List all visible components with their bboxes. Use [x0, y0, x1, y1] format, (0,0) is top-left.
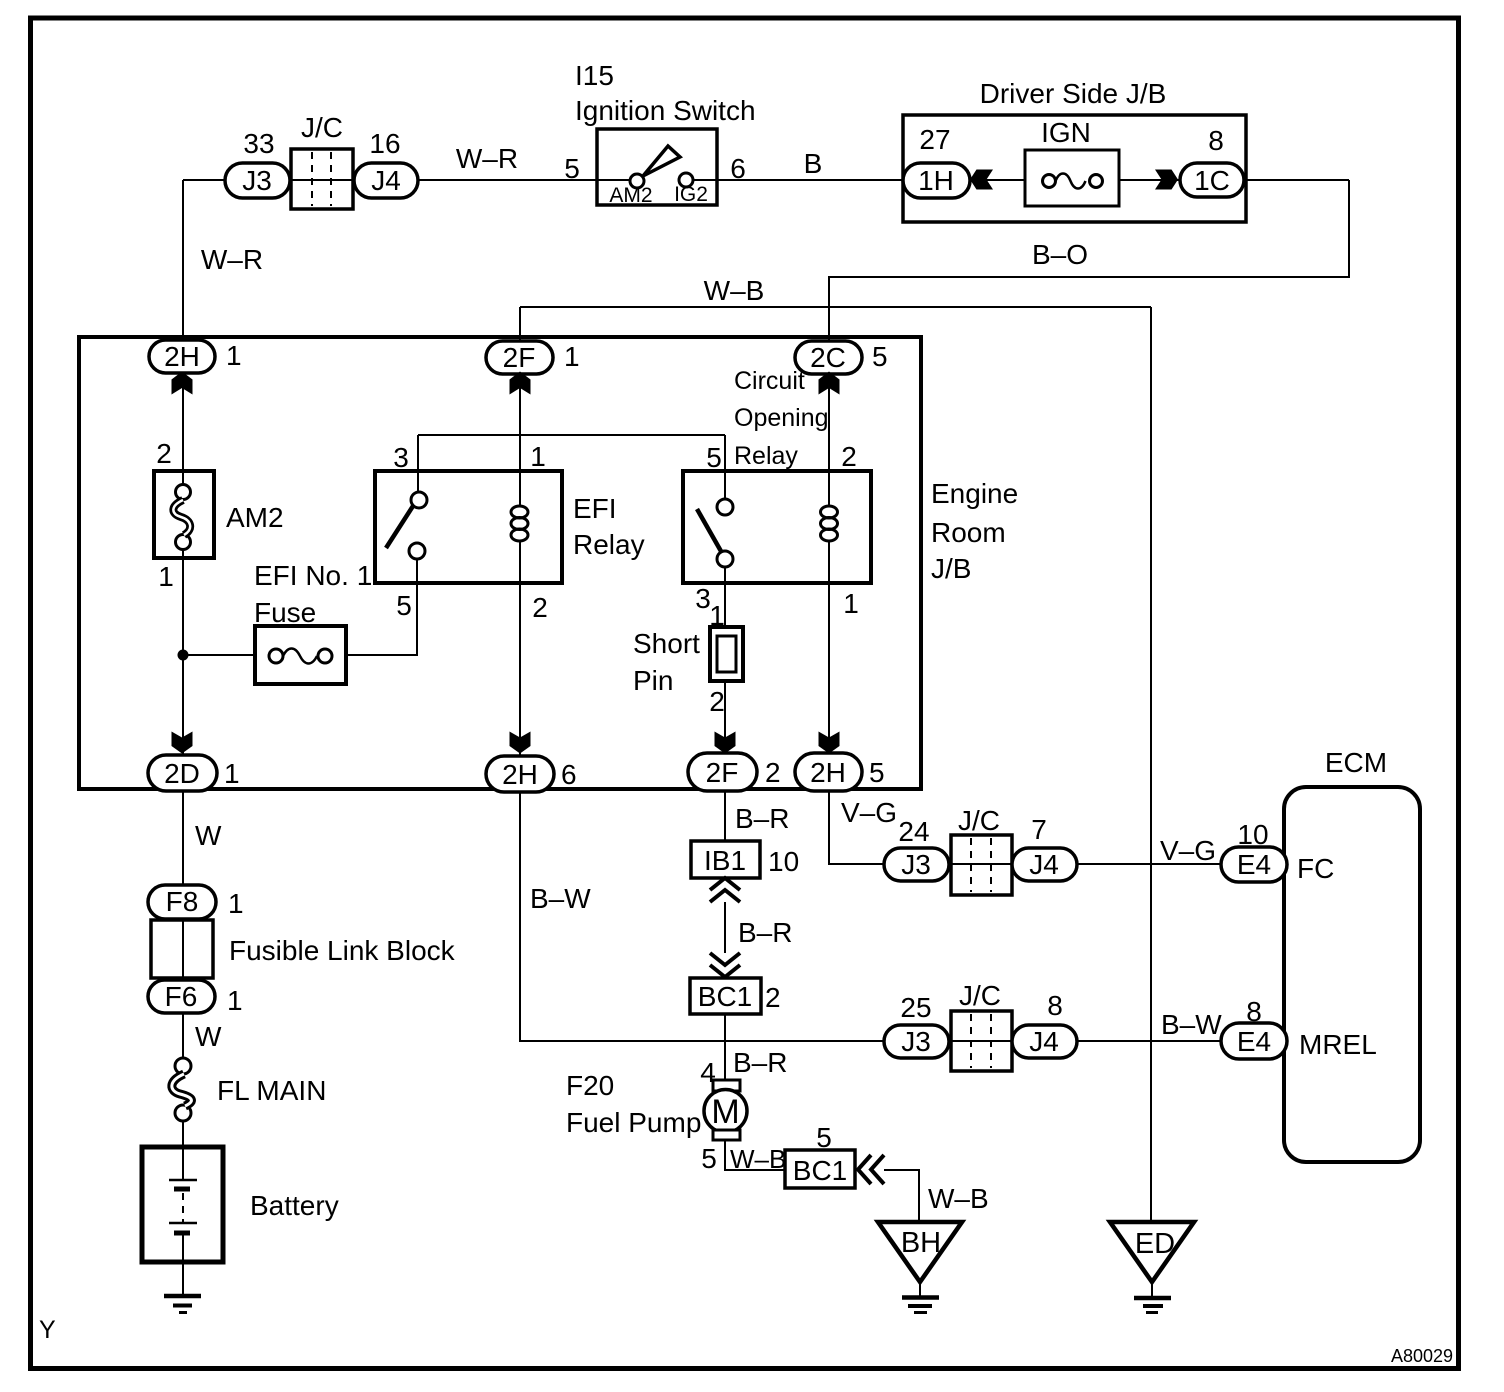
chevrons left at BC1	[858, 1155, 884, 1184]
arrow down above 2F2	[715, 732, 736, 754]
wire W-B from fuel pump pin 5 to connector BC1	[725, 1140, 785, 1170]
svg-text:8: 8	[1047, 990, 1063, 1021]
svg-text:A80029: A80029	[1391, 1346, 1453, 1366]
junction connector J/C row2	[951, 980, 1012, 1071]
svg-text:1: 1	[564, 341, 580, 372]
svg-text:M: M	[711, 1093, 739, 1131]
svg-text:Fuse: Fuse	[254, 597, 316, 628]
wire W-B from BC1 chevrons to BH ground	[884, 1170, 919, 1221]
connector E4 pin 8	[1221, 996, 1287, 1059]
ground battery	[164, 1296, 201, 1313]
wire B-O from 1C down and left to connector 2C	[829, 180, 1349, 506]
svg-text:Room: Room	[931, 517, 1006, 548]
svg-text:1: 1	[843, 588, 859, 619]
label F20 Fuel Pump	[566, 1070, 701, 1138]
Driver Side J/B box	[903, 115, 1246, 222]
svg-text:V–G: V–G	[1160, 835, 1216, 866]
wire B-R from circuit opening relay pin 3 through short pin to 2F2 and IB1	[724, 559, 726, 878]
svg-text:2: 2	[709, 686, 725, 717]
junction connector J/C top	[291, 112, 353, 209]
Engine Room J/B box	[79, 337, 1018, 789]
svg-text:MREL: MREL	[1299, 1029, 1377, 1060]
connector 2F pin 1 top	[486, 341, 580, 374]
svg-text:AM2: AM2	[609, 184, 652, 207]
svg-text:J/C: J/C	[959, 980, 1001, 1011]
connector 2D pin 1 bottom	[148, 755, 240, 791]
arrow down above 2H6	[510, 732, 531, 754]
svg-text:F20: F20	[566, 1070, 614, 1101]
ground triangle BH	[878, 1222, 962, 1282]
svg-text:J3: J3	[901, 849, 931, 880]
connector 2F pin 2 bottom	[688, 753, 781, 791]
svg-text:BC1: BC1	[793, 1155, 847, 1186]
wire circuit opening relay pin 5 drop	[724, 435, 726, 507]
svg-text:2F: 2F	[706, 757, 739, 788]
svg-text:2D: 2D	[164, 758, 200, 789]
svg-text:1H: 1H	[918, 165, 954, 196]
svg-text:Relay: Relay	[573, 529, 645, 560]
ECM box U1	[1284, 747, 1420, 1162]
svg-text:1: 1	[228, 888, 244, 919]
svg-text:FC: FC	[1297, 853, 1334, 884]
connector 2H pin 1 top	[149, 340, 242, 373]
svg-text:W: W	[195, 820, 222, 851]
connector J4 pin 8	[1012, 990, 1077, 1058]
connector BC1 pin 5 lower	[785, 1122, 855, 1188]
fusible link block	[151, 920, 456, 978]
arrow left at 1H	[970, 170, 993, 190]
svg-text:8: 8	[1246, 996, 1262, 1027]
wire stub BH triangle to ground	[919, 1284, 921, 1296]
ground triangle ED	[1110, 1222, 1194, 1282]
svg-text:W–R: W–R	[456, 143, 518, 174]
svg-text:J/C: J/C	[301, 112, 343, 143]
svg-text:Pin: Pin	[633, 665, 673, 696]
svg-text:AM2: AM2	[226, 502, 284, 533]
svg-text:Circuit: Circuit	[734, 367, 805, 395]
wire W-B horizontal from 2F to ED drop	[520, 306, 1151, 308]
wire jumper from EFI relay pin 3 to circuit opening relay pin 5	[418, 434, 725, 436]
connector F6 pin 1	[148, 980, 243, 1016]
svg-text:Battery: Battery	[250, 1190, 339, 1221]
svg-text:1: 1	[226, 340, 242, 371]
label EFI Relay	[573, 493, 645, 560]
svg-text:2: 2	[156, 438, 172, 469]
svg-text:33: 33	[243, 128, 274, 159]
connector IB1 pin 10	[691, 841, 799, 878]
label Circuit Opening Relay	[734, 367, 829, 470]
chevrons up below IB1	[710, 878, 740, 902]
svg-text:J4: J4	[371, 165, 401, 196]
svg-text:2C: 2C	[810, 342, 846, 373]
battery	[142, 1147, 339, 1262]
svg-text:ED: ED	[1135, 1228, 1175, 1260]
svg-text:Fuel Pump: Fuel Pump	[566, 1107, 701, 1138]
wire B-W from EFI relay coil pin 2 through 2H6 to ECM MREL	[520, 541, 1221, 1041]
relay circuit opening coil	[821, 506, 838, 541]
svg-text:B–W: B–W	[530, 883, 591, 914]
svg-text:EFI: EFI	[573, 493, 617, 524]
svg-text:B–W: B–W	[1161, 1009, 1222, 1040]
wire V-G from circuit opening relay coil to connector 2H5 then to ECM FC	[829, 541, 1221, 864]
ground symbol ED	[1134, 1298, 1171, 1313]
svg-text:B–R: B–R	[735, 803, 789, 834]
ignition switch contact IG2	[679, 173, 693, 187]
svg-text:ECM: ECM	[1325, 747, 1387, 778]
arrow down above 2H5	[819, 732, 840, 754]
junction connector J/C row1	[951, 805, 1012, 895]
ignition switch I15	[575, 60, 756, 205]
svg-text:W–B: W–B	[704, 275, 765, 306]
wire EFI relay pin 3 drop	[417, 435, 419, 492]
svg-text:B: B	[804, 148, 823, 179]
svg-text:Short: Short	[633, 628, 700, 659]
connector J3 pin 33	[225, 128, 290, 198]
wire from battery to ground	[182, 1232, 184, 1296]
svg-text:E4: E4	[1237, 849, 1271, 880]
short pin	[709, 600, 743, 717]
svg-text:IG2: IG2	[674, 183, 708, 206]
wire W-R from J/C J3 left to ignition switch AM2	[183, 179, 637, 181]
fusible link AM2	[154, 438, 284, 592]
svg-text:5: 5	[706, 442, 722, 473]
connector E4 pin 10	[1221, 819, 1287, 882]
wire stub ED triangle to ground	[1151, 1284, 1153, 1296]
svg-text:6: 6	[561, 759, 577, 790]
connector J3 pin 25	[884, 992, 949, 1058]
svg-text:B–R: B–R	[733, 1047, 787, 1078]
svg-text:2: 2	[765, 757, 781, 788]
svg-text:W: W	[195, 1021, 222, 1052]
svg-text:Engine: Engine	[931, 478, 1018, 509]
svg-text:W–B: W–B	[730, 1144, 786, 1174]
svg-text:B–R: B–R	[738, 917, 792, 948]
battery internal dashed link	[182, 1193, 184, 1222]
connector 1H	[903, 163, 970, 198]
relay EFI	[375, 471, 562, 583]
svg-text:2F: 2F	[503, 342, 536, 373]
svg-text:I15: I15	[575, 60, 614, 91]
wire W from AM2 fuse through 2D F8 F6 to FL MAIN	[182, 542, 184, 1066]
svg-text:J/C: J/C	[958, 805, 1000, 836]
fuse IGN	[1025, 150, 1119, 206]
svg-text:2: 2	[765, 982, 781, 1013]
svg-text:2H: 2H	[164, 341, 200, 372]
relay EFI pin labels	[393, 441, 548, 623]
wire B-R between chevrons IB1 to BC1	[724, 902, 726, 953]
connector J3 pin 24	[884, 816, 949, 881]
arrow down above 2D	[172, 732, 193, 754]
arrow up below 2H	[172, 372, 193, 395]
connector BC1 pin 2	[690, 978, 781, 1014]
ground symbol BH	[902, 1298, 939, 1313]
svg-text:F6: F6	[165, 981, 198, 1012]
connector J4 pin 7	[1012, 814, 1077, 881]
svg-text:5: 5	[701, 1143, 717, 1174]
svg-text:FL MAIN: FL MAIN	[217, 1075, 326, 1106]
svg-text:2: 2	[532, 592, 548, 623]
svg-text:W–R: W–R	[201, 244, 263, 275]
svg-text:E4: E4	[1237, 1026, 1271, 1057]
fuse EFI No. 1	[255, 626, 346, 684]
svg-text:W–B: W–B	[928, 1183, 989, 1214]
fuel pump motor F20	[704, 1080, 747, 1140]
connector 2H pin 6 bottom	[486, 756, 577, 792]
svg-text:1C: 1C	[1194, 165, 1230, 196]
arrow right at 1C	[1155, 170, 1178, 190]
svg-text:5: 5	[396, 590, 412, 621]
arrow up below 2F	[510, 372, 531, 395]
connector F8 pin 1	[148, 885, 244, 919]
svg-text:10: 10	[768, 846, 799, 877]
relay circuit opening pin labels	[695, 441, 859, 619]
svg-text:Fusible Link Block: Fusible Link Block	[229, 935, 456, 966]
wire W-B vertical down to ED ground	[1150, 307, 1152, 1221]
svg-text:J3: J3	[901, 1026, 931, 1057]
svg-text:27: 27	[919, 124, 950, 155]
svg-text:25: 25	[900, 992, 931, 1023]
svg-text:J3: J3	[242, 165, 272, 196]
svg-text:J4: J4	[1029, 1026, 1059, 1057]
wire W-R vertical from J3 corner down to connector 2H	[182, 180, 184, 492]
svg-text:7: 7	[1031, 814, 1047, 845]
svg-text:2H: 2H	[502, 759, 538, 790]
ignition switch contact AM2	[630, 174, 644, 188]
svg-text:J/B: J/B	[931, 553, 971, 584]
wire from EFI relay pin 5 down and left to EFI No.1 fuse and junction	[183, 551, 417, 655]
svg-text:1: 1	[224, 758, 240, 789]
svg-text:IB1: IB1	[704, 845, 746, 876]
arrow up below 2C	[819, 372, 840, 395]
svg-text:IGN: IGN	[1041, 117, 1091, 148]
relay circuit opening	[683, 471, 871, 583]
svg-text:Relay: Relay	[734, 442, 798, 470]
svg-text:Opening: Opening	[734, 404, 829, 432]
label EFI No. 1 Fuse	[254, 560, 372, 628]
svg-text:Driver Side J/B: Driver Side J/B	[980, 78, 1167, 109]
svg-text:24: 24	[898, 816, 929, 847]
wire B from ignition switch IG2 to Driver Side J/B and to B-O corner	[686, 179, 1349, 181]
svg-text:2: 2	[841, 441, 857, 472]
chevrons down above BC1	[710, 953, 740, 977]
svg-text:10: 10	[1237, 819, 1268, 850]
svg-text:16: 16	[369, 128, 400, 159]
label Short Pin	[633, 628, 700, 696]
svg-text:J4: J4	[1029, 849, 1059, 880]
svg-text:BC1: BC1	[698, 981, 752, 1012]
svg-text:1: 1	[709, 600, 725, 631]
svg-text:F8: F8	[166, 886, 199, 917]
svg-text:BH: BH	[901, 1227, 941, 1259]
svg-text:8: 8	[1208, 125, 1224, 156]
svg-text:Y: Y	[39, 1316, 56, 1344]
svg-text:V–G: V–G	[841, 797, 897, 828]
svg-text:Ignition Switch: Ignition Switch	[575, 95, 756, 126]
svg-text:EFI No. 1: EFI No. 1	[254, 560, 372, 591]
wire B-R from BC1 down to fuel pump	[724, 977, 726, 1080]
svg-text:B–O: B–O	[1032, 239, 1088, 270]
svg-text:5: 5	[564, 153, 580, 184]
svg-text:6: 6	[730, 153, 746, 184]
wire from FL MAIN to battery plate	[182, 1113, 184, 1180]
junction node at AM2 fuse branch	[178, 650, 189, 661]
ignition switch lever	[643, 146, 680, 176]
connector 2C pin 5 top	[795, 341, 888, 374]
svg-text:2H: 2H	[810, 757, 846, 788]
svg-text:1: 1	[227, 985, 243, 1016]
wire from W-B corner down to EFI relay coil pin 1	[519, 307, 521, 506]
connector J4 pin 16	[354, 128, 418, 198]
svg-text:5: 5	[816, 1122, 832, 1153]
connector 2H pin 5 bottom	[795, 753, 885, 791]
svg-text:3: 3	[393, 442, 409, 473]
svg-text:1: 1	[530, 441, 546, 472]
svg-text:1: 1	[158, 561, 174, 592]
svg-text:5: 5	[872, 341, 888, 372]
svg-text:5: 5	[869, 757, 885, 788]
connector 1C	[1180, 163, 1244, 197]
fusible link FL MAIN	[172, 1058, 327, 1121]
relay EFI coil	[511, 506, 528, 541]
